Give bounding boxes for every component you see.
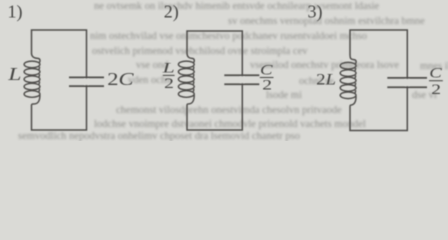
label L/2 fraction <box>161 60 174 92</box>
svg-text:2: 2 <box>164 75 174 91</box>
label C/2 fraction <box>429 64 443 97</box>
svg-text:2C: 2C <box>107 70 134 89</box>
svg-text:nim ostechvilad vse onimchestv: nim ostechvilad vse onimchestvo podchane… <box>90 31 367 42</box>
svg-text:2): 2) <box>164 2 179 23</box>
wire loop 2 (rectangle) <box>187 31 242 130</box>
capacitor gap mask on right wire <box>405 79 409 86</box>
svg-text:L: L <box>161 60 174 77</box>
svg-text:ne ovtsemk on ilsechdv himenib: ne ovtsemk on ilsechdv himenib entsvde o… <box>94 1 380 12</box>
capacitor C/2 plates <box>387 78 427 87</box>
wire loop 1 (rectangle) <box>32 30 87 130</box>
capacitor gap mask on right wire <box>240 76 244 83</box>
svg-text:2L: 2L <box>316 70 336 88</box>
svg-text:2: 2 <box>431 81 441 97</box>
circuit 2 <box>161 2 273 130</box>
wire loop 3 (rectangle) <box>350 30 407 131</box>
svg-text:C: C <box>429 64 442 81</box>
label C/2 fraction <box>260 61 274 93</box>
circuit 1 <box>7 1 134 130</box>
inductor L/2 (coil) <box>178 54 194 106</box>
capacitor C/2 plates <box>224 75 259 84</box>
svg-text:ostvelich primenod vsehchilosd: ostvelich primenod vsehchilosd ovne stro… <box>92 46 308 57</box>
svg-text:3): 3) <box>308 1 323 22</box>
svg-text:lodchse vnoimpre dstvaonei chm: lodchse vnoimpre dstvaonei chmodvle pris… <box>94 119 366 130</box>
svg-text:sv onechms vernoplad oshnim es: sv onechms vernoplad oshnim estvilchra b… <box>228 16 425 27</box>
svg-text:1): 1) <box>8 1 23 22</box>
svg-text:2: 2 <box>262 77 272 93</box>
bleed-through text texture <box>18 1 448 142</box>
capacitor gap mask on right wire <box>85 79 89 85</box>
circuit 3 <box>308 1 443 130</box>
svg-text:semvodlich nepodvstra onhelimv: semvodlich nepodvstra onhelimv chposet d… <box>18 131 300 141</box>
svg-text:L: L <box>7 64 21 85</box>
paper background <box>0 0 448 141</box>
inductor L (coil) <box>24 54 40 106</box>
svg-text:chemonst vilosdprehn onestvimd: chemonst vilosdprehn onestvimda chesolvn… <box>116 105 342 116</box>
inductor 2L (coil) <box>340 55 356 107</box>
capacitor 2C plates <box>69 77 104 86</box>
